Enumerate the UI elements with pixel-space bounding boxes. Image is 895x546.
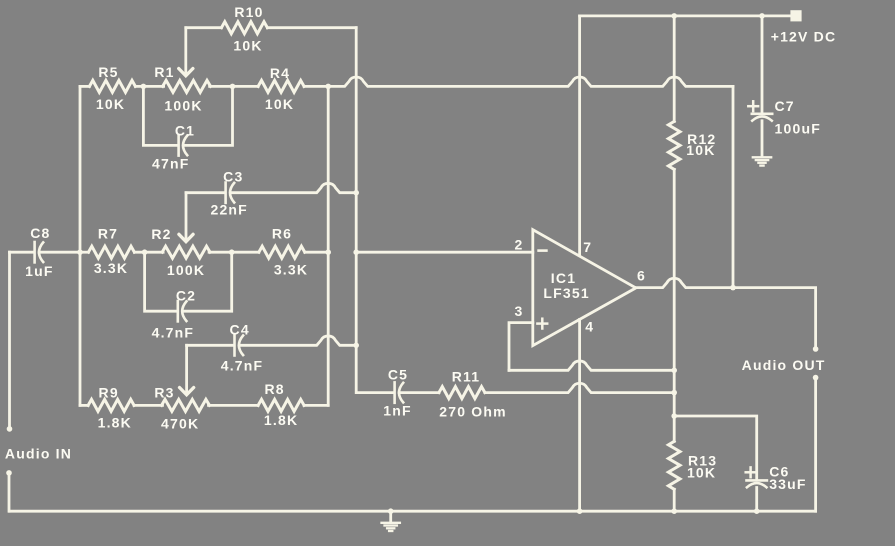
capacitor C5 xyxy=(395,382,404,402)
label R2 value xyxy=(167,262,205,278)
node input bus row2 xyxy=(77,249,83,255)
node output junction xyxy=(730,285,736,291)
svg-text:R4: R4 xyxy=(270,65,290,81)
svg-text:R9: R9 xyxy=(99,385,119,401)
label C7 xyxy=(775,98,795,114)
node rail C6 xyxy=(754,508,760,514)
svg-text:100uF: 100uF xyxy=(775,120,821,136)
label C1 xyxy=(175,122,195,138)
label C4 xyxy=(230,322,250,338)
node rail pin4 xyxy=(577,508,583,514)
label R1 xyxy=(154,64,174,80)
svg-text:10K: 10K xyxy=(96,96,125,112)
svg-text:22nF: 22nF xyxy=(210,202,247,218)
capacitor C4 xyxy=(235,335,244,355)
resistor R10 xyxy=(186,22,356,34)
wire input bus (vertical) xyxy=(79,86,82,405)
wire R4 to output bus xyxy=(304,85,328,88)
node Audio IN upper xyxy=(7,426,13,432)
label pin 7 xyxy=(583,239,592,255)
wire output bus (vertical) xyxy=(327,86,330,405)
resistor R3 (pot) xyxy=(162,399,210,411)
wire R9-R3 xyxy=(134,404,162,407)
label C3 value xyxy=(210,202,247,218)
svg-text:10K: 10K xyxy=(233,38,262,54)
terminal +12V DC xyxy=(790,10,801,21)
node divider top xyxy=(671,13,677,19)
wire C5-R11 xyxy=(399,391,439,394)
svg-text:10K: 10K xyxy=(265,96,294,112)
label pin 6 xyxy=(637,268,646,284)
wire audio-in corner to C8 xyxy=(10,251,34,254)
label R9 value xyxy=(98,414,132,430)
op-amp minus sign xyxy=(539,249,547,252)
wire Audio IN upper xyxy=(8,252,11,427)
label LF351 xyxy=(543,285,589,301)
wire R13 to rail xyxy=(673,489,676,511)
ground symbol xyxy=(382,511,400,531)
node Audio OUT upper xyxy=(813,346,819,352)
label C2 value xyxy=(152,325,195,341)
svg-text:+12V DC: +12V DC xyxy=(771,28,837,44)
label C4 value xyxy=(221,358,264,374)
wire divider middle xyxy=(673,169,676,441)
resistor R2 (pot) xyxy=(162,246,210,258)
label R11 xyxy=(452,369,481,385)
wire R6 to output bus xyxy=(305,251,328,254)
label R13 value xyxy=(687,465,716,481)
svg-text:R5: R5 xyxy=(98,64,118,80)
svg-text:R11: R11 xyxy=(452,369,481,385)
svg-text:C4: C4 xyxy=(230,322,250,338)
svg-text:470K: 470K xyxy=(161,416,199,432)
svg-text:R3: R3 xyxy=(154,385,174,401)
label C7 value xyxy=(775,120,821,136)
resistor R7 xyxy=(88,246,134,258)
wire row1 left corner xyxy=(80,85,89,88)
label R6 value xyxy=(274,261,308,277)
svg-text:1.8K: 1.8K xyxy=(98,414,132,430)
svg-text:10K: 10K xyxy=(686,142,715,158)
svg-text:10K: 10K xyxy=(687,465,716,481)
label R3 xyxy=(154,385,174,401)
node C3-inverting bus xyxy=(353,190,359,196)
capacitor C8 xyxy=(35,242,44,262)
ground C7 xyxy=(753,157,771,165)
wire C4 right (hop x328) xyxy=(240,336,356,345)
resistor R6 xyxy=(259,246,305,258)
svg-text:R6: R6 xyxy=(272,226,292,242)
label Audio IN xyxy=(5,445,72,461)
wire pin7 supply (vertical from +12V rail to op-amp) xyxy=(578,16,581,255)
svg-text:270 Ohm: 270 Ohm xyxy=(439,403,507,419)
resistor R4 xyxy=(258,80,304,92)
svg-text:4.7nF: 4.7nF xyxy=(221,358,264,374)
label IC1 xyxy=(551,270,576,286)
svg-text:3.3K: 3.3K xyxy=(274,261,308,277)
wire C6 bottom xyxy=(755,488,758,512)
node R1 right xyxy=(230,84,236,90)
svg-text:R2: R2 xyxy=(151,226,171,242)
resistor R9 xyxy=(88,399,134,411)
svg-text:R1: R1 xyxy=(154,64,174,80)
node R11-divider xyxy=(671,390,677,396)
label Audio OUT xyxy=(742,357,826,373)
label C3 xyxy=(223,169,243,185)
svg-text:33uF: 33uF xyxy=(769,476,806,492)
wire ground rail xyxy=(10,510,816,513)
node C7 top xyxy=(759,13,765,19)
capacitor C6 plus xyxy=(746,467,756,477)
svg-text:C1: C1 xyxy=(175,122,195,138)
svg-text:C5: C5 xyxy=(388,366,408,382)
capacitor C2 loop xyxy=(145,252,232,321)
wire row3 left corner xyxy=(80,404,88,407)
op-amp IC1 xyxy=(533,230,636,346)
wire C7 top lead xyxy=(761,16,764,113)
wire bus-R7 xyxy=(80,251,88,254)
label R8 xyxy=(264,381,284,397)
label R8 value xyxy=(264,412,298,428)
wire +12V top rail xyxy=(580,14,791,17)
label +12V DC xyxy=(771,28,837,44)
wire Audio OUT to rail xyxy=(814,378,817,512)
svg-text:3: 3 xyxy=(515,303,524,319)
svg-text:4: 4 xyxy=(585,318,594,334)
label R7 value xyxy=(94,260,128,276)
label R4 xyxy=(270,65,290,81)
wire C7 bottom xyxy=(761,121,764,156)
label C6 value xyxy=(769,476,806,492)
capacitor C4 wire left + wiper arrow xyxy=(180,345,234,395)
node rail ground xyxy=(388,508,394,514)
svg-text:47nF: 47nF xyxy=(152,156,189,172)
svg-text:1uF: 1uF xyxy=(25,263,54,279)
svg-text:C8: C8 xyxy=(30,225,50,241)
label R5 value xyxy=(96,96,125,112)
node feedback row2 xyxy=(325,249,331,255)
wire output (hop x674) xyxy=(636,278,733,287)
capacitor C7 plus xyxy=(748,101,758,111)
resistor R11 xyxy=(439,387,485,399)
op-amp plus sign xyxy=(537,319,547,329)
node Audio OUT lower xyxy=(813,375,819,381)
capacitor C1 loop xyxy=(143,86,232,155)
wire inverting bus (vertical) xyxy=(356,28,394,393)
node C6 tap xyxy=(671,413,677,419)
svg-text:IC1: IC1 xyxy=(551,270,576,286)
node R2 left xyxy=(142,249,148,255)
resistor R13 xyxy=(668,441,680,489)
wire R8 to output bus xyxy=(304,404,328,407)
wire R3-R8 xyxy=(209,404,259,407)
label R2 xyxy=(151,226,171,242)
resistor R1 (pot) xyxy=(163,80,211,92)
svg-text:R7: R7 xyxy=(98,226,118,242)
label C6 xyxy=(769,463,789,479)
label R3 value xyxy=(161,416,199,432)
node inverting bus row2 xyxy=(353,249,359,255)
svg-text:C2: C2 xyxy=(176,288,196,304)
label R10 xyxy=(234,4,263,20)
label C8 xyxy=(30,225,50,241)
wire C6 top xyxy=(674,416,757,480)
label R13 xyxy=(688,453,717,469)
resistor R5 xyxy=(89,80,135,92)
wire pin3 jog xyxy=(509,323,533,371)
svg-text:1.8K: 1.8K xyxy=(264,412,298,428)
wire Audio IN lower xyxy=(8,473,11,511)
label C1 value xyxy=(152,156,189,172)
svg-text:2: 2 xyxy=(515,236,524,252)
capacitor C3 wire left + wiper arrow xyxy=(179,193,225,242)
wire row1 long (hops x356,x580,x674) to output drop xyxy=(328,77,733,288)
label pin 2 xyxy=(515,236,524,252)
svg-text:C3: C3 xyxy=(223,169,243,185)
capacitor C6 xyxy=(747,480,767,487)
label R1 value xyxy=(164,97,202,113)
wire R7-R2 xyxy=(134,251,163,254)
wire pin3 bias (hop x580) xyxy=(509,361,674,370)
svg-text:100K: 100K xyxy=(164,97,202,113)
capacitor C3 xyxy=(226,183,235,203)
wire R1-R4 xyxy=(210,85,259,88)
wire divider top drop xyxy=(673,16,676,122)
label R5 xyxy=(98,64,118,80)
svg-text:Audio OUT: Audio OUT xyxy=(742,357,826,373)
label C2 xyxy=(176,288,196,304)
node R2 right xyxy=(229,249,235,255)
node C4-inverting bus xyxy=(353,343,359,349)
label R11 value xyxy=(439,403,507,419)
wire R5-R1 xyxy=(135,85,163,88)
wire pin4 (vertical to ground rail) xyxy=(578,320,581,512)
label R7 xyxy=(98,226,118,242)
wire output to Audio OUT corner xyxy=(733,288,816,348)
node R1 left xyxy=(141,84,147,90)
label R9 xyxy=(99,385,119,401)
wire R11 to divider (hop x580) xyxy=(485,383,674,392)
svg-text:7: 7 xyxy=(583,239,592,255)
wire R1 wiper drop xyxy=(179,28,193,76)
wire pin2 lead xyxy=(356,251,533,254)
resistor R8 xyxy=(258,399,304,411)
svg-text:Audio IN: Audio IN xyxy=(5,445,72,461)
svg-text:4.7nF: 4.7nF xyxy=(152,325,195,341)
svg-text:100K: 100K xyxy=(167,262,205,278)
label R6 xyxy=(272,226,292,242)
label R12 xyxy=(687,131,716,147)
label pin 4 xyxy=(585,318,594,334)
node Audio IN lower xyxy=(6,470,12,476)
wire C3 right (hop x328) xyxy=(231,183,356,192)
svg-text:LF351: LF351 xyxy=(543,285,589,301)
label C5 xyxy=(388,366,408,382)
svg-text:R8: R8 xyxy=(264,381,284,397)
svg-text:C7: C7 xyxy=(775,98,795,114)
wire C8 to bus xyxy=(39,251,80,254)
label R4 value xyxy=(265,96,294,112)
label C8 value xyxy=(25,263,54,279)
capacitor C7 xyxy=(752,114,772,121)
wire R2-R6 xyxy=(209,251,259,254)
resistor R12 xyxy=(668,121,680,169)
svg-text:R10: R10 xyxy=(234,4,263,20)
svg-text:3.3K: 3.3K xyxy=(94,260,128,276)
node bias-divider xyxy=(671,368,677,374)
label C5 value xyxy=(383,402,412,418)
node feedback row1 xyxy=(325,84,331,90)
svg-text:1nF: 1nF xyxy=(383,402,412,418)
label R12 value xyxy=(686,142,715,158)
svg-text:6: 6 xyxy=(637,268,646,284)
node rail divider xyxy=(671,508,677,514)
label R10 value xyxy=(233,38,262,54)
label pin 3 xyxy=(515,303,524,319)
